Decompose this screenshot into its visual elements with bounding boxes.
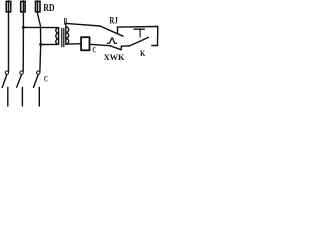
fuse F2 [21, 1, 25, 11]
wire phase L3 lower [38, 88, 40, 107]
switch K actuator T crossbar [134, 28, 144, 30]
wire phase L1 lower [7, 88, 9, 107]
contact C2 circle [20, 71, 23, 74]
svg-text:XWK: XWK [104, 52, 125, 62]
contact C3 circle [37, 71, 40, 74]
contact RJ hook terminal [117, 27, 119, 34]
fuse F1 [6, 1, 10, 11]
contact C1 blade [2, 75, 7, 88]
wire right edge down [157, 27, 159, 46]
wire transformer primary top feed [23, 26, 58, 28]
wire XWK to K pivot [121, 45, 129, 47]
svg-text:C: C [93, 45, 97, 54]
transformer B primary winding [56, 28, 59, 45]
contact C1 circle [5, 71, 8, 74]
svg-text:C: C [44, 75, 48, 84]
contact RJ blade [100, 26, 123, 36]
transformer B core [62, 28, 64, 46]
contact XWK blade [110, 46, 121, 50]
svg-text:B: B [64, 16, 68, 26]
svg-text:RJ: RJ [109, 17, 118, 27]
wire phase L1 upper [8, 1, 10, 71]
fuse F3 [36, 1, 41, 11]
wire phase L2 upper [22, 1, 24, 71]
contact C2 blade [17, 75, 22, 88]
svg-text:RD: RD [43, 2, 54, 14]
transformer B secondary winding [66, 23, 69, 44]
svg-text:K: K [140, 48, 145, 58]
coil C rectangle [81, 37, 89, 50]
wire K fixed terminal stub [152, 45, 158, 47]
contact XWK hook terminal [120, 46, 122, 50]
wire RJ to top right corner [118, 26, 158, 29]
switch K actuator T stem [139, 29, 141, 37]
wire phase L2 lower [21, 88, 23, 107]
wire coil C to XWK [90, 44, 110, 45]
limit switch XWK roller lever [107, 38, 116, 43]
node junction L3/control [39, 43, 42, 46]
switch K blade [129, 37, 148, 46]
wire phase L3 upper [38, 1, 41, 71]
wire secondary bottom to coil C [66, 43, 81, 46]
contact C3 blade [34, 75, 39, 88]
wire secondary top to RJ [66, 23, 100, 26]
wire transformer primary bottom feed [41, 43, 59, 45]
node junction L2/control [22, 26, 25, 29]
